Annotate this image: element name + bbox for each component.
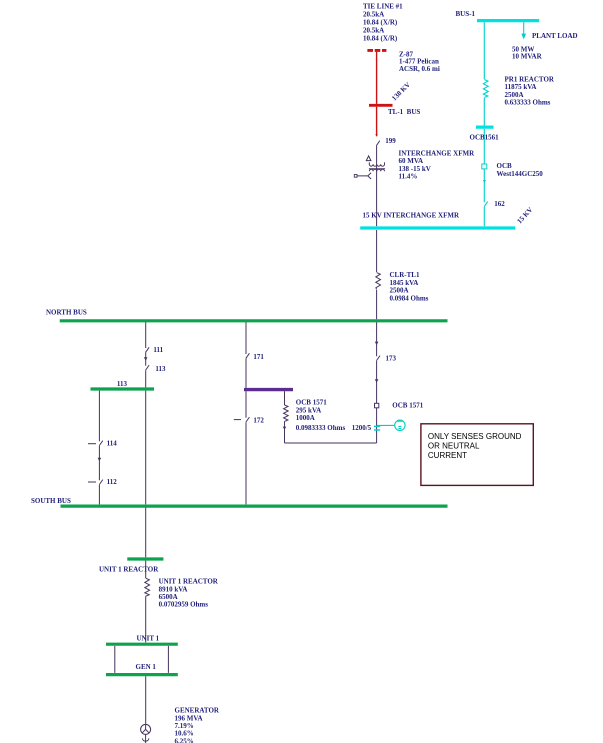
label 112 (107, 478, 118, 486)
arrow below 173 (375, 379, 379, 383)
label TL-1 BUS (388, 108, 420, 116)
svg-text:111: 111 (153, 346, 163, 354)
label OCB1561 (470, 133, 500, 141)
CT mark left of 172 (234, 419, 241, 421)
label 171 (253, 353, 264, 361)
svg-text:OCB 1571: OCB 1571 (392, 402, 423, 410)
svg-text:11.4%: 11.4% (399, 173, 418, 181)
wire purple bar to south bus via 172 (line C lower) (245, 391, 247, 504)
CT mark left of 112 (88, 481, 96, 483)
annotation box ONLY SENSES GROUND (421, 424, 533, 486)
svg-text:1200/5: 1200/5 (352, 424, 372, 432)
switch 171 (246, 353, 250, 358)
load arrow PLANT LOAD (521, 22, 526, 39)
svg-text:6.25%: 6.25% (175, 737, 194, 743)
wire from switch 199 through transformer to 15kV bus (376, 146, 378, 226)
wire CT to ground relay (cyan) (377, 424, 395, 426)
bus NORTH BUS (green) (60, 319, 448, 322)
svg-text:112: 112 (107, 478, 118, 486)
svg-text:172: 172 (253, 416, 264, 424)
wire north bus to CT corner (line A lower) (285, 322, 377, 443)
svg-text:PLANT LOAD: PLANT LOAD (532, 32, 578, 40)
reactor PR1 zigzag (483, 80, 488, 98)
reactor CLR-TL1 zigzag (376, 273, 381, 290)
switch 112 (99, 480, 103, 485)
label UNIT 1 REACTOR bus (99, 565, 159, 573)
switch 111 (146, 347, 150, 352)
svg-text:SOUTH BUS: SOUTH BUS (31, 497, 71, 505)
relay circle (ground relay) (395, 420, 405, 430)
label bus 113 (117, 380, 128, 388)
wire 15kV bus to north bus (376, 230, 378, 319)
label PLANT LOAD (512, 32, 578, 61)
bus UNIT 1 top bar (green) (106, 643, 178, 646)
label TIE LINE #1 ratings (363, 2, 403, 42)
svg-text:162: 162 (494, 200, 505, 208)
label SOUTH BUS (31, 497, 71, 505)
switch 199 (376, 141, 380, 146)
breaker OCB square (West144GC250) (482, 164, 487, 169)
label 111 (153, 346, 163, 354)
wire 113 bus to south bus via 114/112 (line E) (98, 391, 100, 505)
label 1200/5 (352, 424, 372, 432)
bus TL-1 (red bar) (369, 104, 393, 107)
label 172 (253, 416, 264, 424)
transformer U-XFMR secondary winding (369, 169, 384, 171)
label OCB 1571 reactor (296, 399, 346, 432)
CT 1200/5 bars (cyan) (374, 426, 380, 431)
label 15 KV (rotated) (516, 206, 535, 226)
svg-text:10 MVAR: 10 MVAR (512, 53, 543, 61)
label 114 (107, 440, 118, 448)
label Z-87 conductor (399, 50, 440, 73)
bus tie bar (purple) (244, 388, 293, 391)
svg-text:173: 173 (386, 355, 397, 363)
svg-text:171: 171 (253, 353, 264, 361)
svg-text:TIE LINE #1: TIE LINE #1 (363, 2, 403, 10)
breaker OCB1561 (cyan bar) (476, 125, 494, 128)
label BUS-1 (456, 10, 476, 18)
transformer U-XFMR primary winding (369, 162, 384, 166)
svg-text:199: 199 (385, 137, 396, 145)
transformer U-XFMR core bars (369, 168, 385, 170)
breaker square OCB 1571 (375, 403, 379, 408)
svg-text:0.0983333 Ohms: 0.0983333 Ohms (296, 424, 346, 432)
svg-text:West144GC250: West144GC250 (497, 170, 544, 178)
label 162 (494, 200, 505, 208)
svg-text:CURRENT: CURRENT (428, 451, 467, 460)
label GEN 1 (136, 663, 157, 671)
switch 113 (146, 365, 150, 370)
svg-text:113: 113 (117, 380, 128, 388)
svg-text:TL-1 BUS: TL-1 BUS (388, 108, 420, 116)
svg-text:ONLY SENSES GROUND: ONLY SENSES GROUND (428, 432, 522, 441)
svg-text:0.633333 Ohms: 0.633333 Ohms (505, 99, 551, 107)
wire north bus to purple bar via 171 (line C upper) (245, 322, 247, 388)
label UNIT 1 REACTOR data (159, 578, 219, 609)
svg-text:20.5kA: 20.5kA (363, 10, 384, 18)
wire 113 bus through south bus down to unit reactor (line D lower) (145, 391, 147, 558)
svg-text:OCB: OCB (497, 162, 513, 170)
svg-text:1000A: 1000A (296, 414, 315, 422)
CT mark left of 114 (88, 443, 96, 445)
wire purple bar down through OCB1571 reactor (line B) (284, 391, 286, 443)
svg-text:10.84 (X/R): 10.84 (X/R) (363, 18, 398, 26)
svg-text:UNIT 1 REACTOR: UNIT 1 REACTOR (99, 565, 159, 573)
bus BUS-1 (cyan bar) (477, 19, 539, 22)
arrow below OCB 1571 reactor (283, 427, 286, 430)
svg-text:113: 113 (155, 365, 166, 373)
wire tie line vertical (red, 138kV) (376, 52, 378, 136)
switch 162 (484, 202, 488, 207)
label PR1 REACTOR (505, 76, 555, 107)
arrow between 114 and 112 (98, 458, 102, 461)
label UNIT 1 (137, 634, 160, 642)
label NORTH BUS (46, 309, 87, 317)
bus SOUTH BUS (green) (61, 505, 448, 508)
label 15 KV INTERCHANGE XFMR (363, 211, 460, 219)
wire north bus to 113 bus (line D upper) (145, 322, 147, 387)
bus UNIT 1 bottom bar (green) (106, 673, 178, 676)
label GENERATOR data (175, 707, 220, 743)
svg-text:0.0702959 Ohms: 0.0702959 Ohms (159, 601, 209, 609)
label 113 (155, 365, 166, 373)
generator G1 circle (141, 724, 151, 734)
label OCB 1571 breaker (392, 402, 423, 410)
arrow above 173 (375, 342, 379, 346)
switch 173 (377, 356, 381, 361)
wire BUS-1 feeder vertical (cyan) (483, 22, 485, 226)
svg-text:114: 114 (107, 440, 118, 448)
switch 172 (246, 417, 250, 422)
svg-text:10.84 (X/R): 10.84 (X/R) (363, 34, 398, 42)
reactor UNIT 1 zigzag (145, 578, 150, 596)
wire gen box to generator (145, 676, 147, 724)
label INTERCHANGE XFMR (399, 149, 476, 180)
ground symbol below generator (142, 734, 148, 743)
reactor OCB 1571 zigzag (284, 405, 289, 421)
svg-text:OR NEUTRAL: OR NEUTRAL (428, 442, 480, 451)
svg-text:15 KV INTERCHANGE XFMR: 15 KV INTERCHANGE XFMR (363, 211, 460, 219)
bus 15 KV (cyan) (360, 226, 515, 229)
svg-text:NORTH BUS: NORTH BUS (46, 309, 87, 317)
svg-text:OCB1561: OCB1561 (470, 133, 500, 141)
arrow between 111 and 113 (144, 357, 148, 361)
svg-text:ACSR, 0.6 mi: ACSR, 0.6 mi (399, 65, 440, 73)
svg-text:GEN 1: GEN 1 (136, 663, 157, 671)
label 138 KV (rotated) (390, 81, 412, 103)
bus UNIT 1 REACTOR bar (green) (127, 557, 163, 560)
svg-text:UNIT 1: UNIT 1 (137, 634, 160, 642)
label 199 (385, 137, 396, 145)
transformer U-XFMR wye neutral lead (354, 173, 371, 179)
tie line terminator (dashed red bar) (367, 49, 386, 52)
label OCB West144GC250 (497, 162, 544, 178)
svg-text:BUS-1: BUS-1 (456, 10, 476, 18)
label CLR-TL1 (390, 271, 429, 302)
bus 113 (green bar) (91, 387, 155, 390)
arrow on tie line (red, down) (375, 134, 377, 137)
generator box GEN 1 sides (115, 646, 169, 673)
switch 114 (99, 441, 103, 446)
svg-text:20.5kA: 20.5kA (363, 26, 384, 34)
transformer U-XFMR delta symbol (366, 156, 371, 161)
svg-text:0.0984 Ohms: 0.0984 Ohms (390, 294, 429, 302)
arrow on feeder (cyan tick) (483, 180, 486, 183)
label 173 (386, 355, 397, 363)
wire unit reactor bar to unit1 bus (145, 561, 147, 643)
